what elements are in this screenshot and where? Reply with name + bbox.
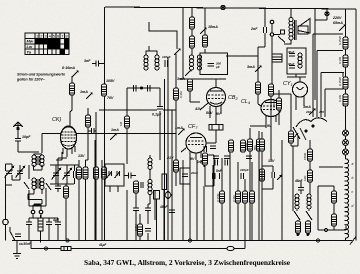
resistor zf a — [203, 153, 208, 165]
extra coil circle — [148, 191, 152, 195]
tube CF7 envelope — [186, 133, 206, 153]
svg-text:Lw: Lw — [27, 44, 33, 49]
capacitor 2nF — [258, 9, 266, 57]
wire caps rail y165 — [50, 165, 79, 173]
box ZF pot — [154, 191, 160, 200]
terminal TA jack b — [270, 33, 274, 37]
svg-text:0,5M: 0,5M — [134, 224, 138, 231]
resistor CL4 cathode bias — [260, 169, 265, 181]
selector arcs — [296, 118, 327, 127]
IF can 1 box — [105, 164, 124, 186]
capacitor zf row c — [246, 156, 252, 158]
wire right chain — [345, 9, 347, 159]
capacitor zf row e — [204, 146, 206, 152]
wire speaker leads — [284, 40, 291, 44]
wire resistor out leads — [40, 215, 42, 243]
resistor R screen IF — [190, 36, 195, 48]
bus ground main — [12, 240, 352, 242]
resistor chain 2 — [343, 55, 348, 67]
tube CL4 grid — [263, 106, 279, 110]
svg-text:pF: pF — [215, 65, 220, 69]
wire CL4 grid — [258, 94, 261, 106]
svg-text:a: a — [352, 162, 354, 166]
oscillator coil left winding — [144, 55, 148, 70]
resistor out stripes — [38, 221, 43, 227]
tube CK pins — [63, 146, 75, 157]
resistor zf c — [236, 191, 241, 203]
capacitor ratio det a — [124, 173, 136, 179]
resistor out dotted — [38, 218, 43, 231]
box AVC detector — [180, 168, 190, 184]
variable capacitor trim 2 — [63, 168, 72, 179]
arrow 1mA mid — [110, 133, 117, 140]
wire filter bottom — [287, 74, 306, 77]
box 1M-50 under CB2 — [209, 125, 223, 131]
pilot lamp b — [343, 140, 349, 146]
tube CB2 anode — [210, 90, 222, 92]
frame bracket right — [318, 186, 346, 230]
svg-text:1mA: 1mA — [80, 90, 88, 94]
capacitor ratio det b — [141, 182, 143, 188]
wire CB2 grid res — [190, 91, 200, 102]
resistor grid leak — [125, 116, 130, 128]
resistor chain 3 — [343, 77, 348, 89]
svg-text:Saba, 347 GWL, Allstrom, 2 Vor: Saba, 347 GWL, Allstrom, 2 Vorkreise, 3 … — [84, 259, 290, 267]
wire backcoupling loop — [291, 94, 298, 146]
mains switch lever — [10, 227, 15, 241]
svg-text:65mA: 65mA — [333, 21, 343, 25]
band switch table — [25, 33, 69, 55]
tube CB2 cathode arc — [210, 102, 222, 104]
wire coil mid — [148, 155, 150, 204]
resistor on x104 — [102, 167, 107, 179]
svg-text:9V: 9V — [190, 157, 195, 161]
IF coil mid upper — [148, 158, 152, 169]
svg-text:0,3M: 0,3M — [179, 91, 183, 98]
ballast wavy resistor — [346, 159, 349, 238]
svg-text:0,1W: 0,1W — [338, 95, 342, 102]
wire x20 column — [20, 165, 29, 206]
wire top HT bus — [105, 7, 356, 241]
wire output tfmr drop — [290, 8, 292, 17]
capacitor cathode bypass — [272, 172, 275, 178]
svg-text:CY1: CY1 — [283, 81, 293, 87]
svg-text:gelten für 220V~: gelten für 220V~ — [16, 78, 46, 82]
svg-text:2M: 2M — [199, 159, 203, 164]
svg-text:10pF: 10pF — [22, 135, 31, 139]
capacitor coupling a2 — [215, 160, 217, 166]
svg-text:41V: 41V — [194, 107, 202, 111]
wire x205 drop — [204, 8, 206, 53]
antenna — [13, 122, 23, 136]
IF transformer can 2 box — [200, 53, 228, 75]
box BaF — [272, 54, 282, 62]
capacitor mid a — [133, 204, 139, 220]
wire x72 into CK — [70, 76, 72, 126]
svg-text:0,15W: 0,15W — [338, 77, 342, 86]
box stripes — [212, 125, 219, 131]
node top right — [325, 12, 329, 16]
svg-text:1M: 1M — [119, 121, 123, 126]
resistor CF7 anode load — [174, 160, 179, 172]
svg-text:50k: 50k — [253, 145, 257, 150]
bandfilter coil 2a — [32, 178, 36, 189]
svg-text:21V: 21V — [166, 156, 174, 160]
switch wave T1 — [24, 182, 51, 190]
svg-text:80V: 80V — [206, 111, 213, 115]
svg-text:70V: 70V — [107, 96, 114, 100]
tube CB2 pins — [200, 103, 221, 121]
ground symbol — [13, 241, 21, 259]
resistor CL4 grid stopper — [256, 82, 261, 94]
capacitor 50nF — [15, 234, 21, 236]
oscillator coil right winding — [155, 55, 159, 70]
capacitor zf row a — [213, 156, 219, 158]
bandfilter coil 1b — [40, 155, 44, 166]
svg-text:0,15M: 0,15M — [216, 193, 220, 202]
svg-text:18mA: 18mA — [208, 25, 218, 29]
wire rail y79 — [180, 78, 226, 80]
wire net leads — [297, 210, 309, 234]
table header digits — [27, 33, 69, 54]
variable capacitor osc tune — [52, 168, 61, 179]
speaker cone — [298, 19, 310, 34]
wire x127 column — [126, 88, 128, 164]
trimmer in can1 a — [107, 171, 112, 178]
capacitor coupling c — [241, 173, 244, 179]
wire x309 — [310, 140, 343, 194]
resistor CL4 cath b — [257, 139, 262, 151]
arrow 3mA CL4 — [255, 65, 262, 72]
node bus left — [66, 239, 69, 242]
resistor left col upper — [269, 84, 274, 96]
variable capacitor aerial trim — [5, 166, 14, 177]
svg-text:4µF: 4µF — [52, 218, 60, 222]
filter block box — [287, 48, 306, 74]
box stripes lower — [64, 246, 68, 250]
tube CB2 grid — [208, 95, 224, 99]
node junction on HT bus — [221, 5, 225, 9]
tube CL4 pins — [266, 115, 276, 128]
annotation texts — [16, 16, 343, 247]
resistor under CK — [64, 186, 69, 198]
wire CL4 anode up — [271, 94, 291, 100]
terminal out b — [39, 210, 43, 214]
tube CL4 envelope — [261, 100, 281, 117]
resistor R anode IF — [190, 17, 195, 29]
output transformer core — [295, 20, 297, 40]
wire anode column x104 — [104, 64, 106, 241]
tube designators — [52, 81, 293, 130]
ballast tap letters — [352, 162, 354, 208]
capacitor 4uF — [29, 218, 61, 241]
tube CK mixer envelope — [61, 126, 77, 149]
arrow 3mA CB2 — [185, 69, 192, 76]
bandfilter coil 1a — [32, 155, 36, 166]
svg-text:0,4W: 0,4W — [272, 101, 276, 108]
jack box — [281, 30, 285, 34]
wire box leads — [207, 121, 217, 143]
wire ballast to bus — [346, 235, 357, 241]
svg-text:3nF: 3nF — [84, 59, 91, 63]
core bandfilter 1 — [37, 156, 39, 165]
wire tap nest 4 — [325, 89, 343, 96]
arrow 3mA CY — [309, 108, 316, 115]
svg-text:Mw: Mw — [27, 39, 34, 44]
capacitor 45nF mid — [169, 206, 175, 222]
table filled cells row Ta — [60, 49, 64, 54]
wire left HT drop — [104, 7, 106, 64]
fuse oval — [227, 246, 234, 250]
node lower bus — [44, 247, 47, 250]
capacitor 200pF in can — [208, 64, 215, 67]
capacitor 10pF antenna — [15, 136, 21, 152]
svg-text:15V: 15V — [268, 159, 275, 163]
wire terminals — [33, 205, 41, 218]
switch bank lever b — [300, 128, 306, 140]
resistor left 0,4W — [277, 98, 282, 110]
capacitor under CK — [55, 184, 61, 192]
node bus right — [316, 239, 319, 242]
pilot lamp a — [343, 130, 349, 136]
resistor ratio det — [134, 181, 139, 193]
svg-text:1mA: 1mA — [175, 126, 183, 130]
svg-text:0,3M: 0,3M — [232, 195, 236, 202]
tube CY1 pins — [296, 96, 304, 111]
svg-text:0,1M: 0,1M — [244, 143, 248, 150]
speaker magnet — [298, 26, 308, 34]
svg-text:240: 240 — [305, 110, 311, 114]
capacitor out b — [46, 218, 52, 241]
capacitor 30uF b — [289, 66, 295, 68]
svg-text:13V: 13V — [78, 154, 85, 158]
svg-text:1kΩ: 1kΩ — [303, 175, 307, 181]
wire frame col — [333, 186, 335, 230]
svg-text:CB2: CB2 — [228, 95, 239, 101]
resistor frame b — [332, 214, 337, 226]
resistor zf extra — [250, 191, 255, 203]
resistor chain 4 — [343, 94, 348, 106]
svg-text:9V: 9V — [267, 124, 272, 128]
wire long x168 — [167, 57, 169, 241]
tube CB2 envelope — [207, 88, 226, 107]
wire tap nest 1 — [313, 34, 343, 96]
wire screen column x96 — [95, 112, 97, 241]
svg-text:3mA: 3mA — [303, 105, 311, 109]
resistor on x262 — [260, 139, 265, 151]
capacitor in AVC box — [182, 174, 188, 176]
bus secondary lower — [31, 241, 245, 249]
svg-text:220V: 220V — [332, 16, 342, 20]
arrow 8-16mA — [72, 70, 79, 77]
switch mains slash — [278, 36, 285, 43]
svg-text:Strom-und Spannungswerte: Strom-und Spannungswerte — [17, 73, 65, 77]
wire x176 drop — [175, 54, 177, 186]
arrow osc current — [174, 48, 181, 55]
wire to CL4 grid rail — [226, 56, 258, 82]
capacitor padding left — [134, 85, 137, 92]
resistor AVC b — [83, 167, 88, 179]
wire CB2 anode up — [215, 79, 217, 88]
resistor tone a — [308, 149, 313, 161]
svg-text:Ta: Ta — [27, 50, 32, 55]
wire x88 — [86, 108, 89, 160]
output transformer primary — [289, 18, 293, 41]
wire cathode stub — [262, 155, 273, 189]
switch bank lever a — [293, 127, 300, 139]
capacitor mid c — [145, 229, 151, 241]
pilot lamp c — [343, 149, 349, 155]
wire 220V drop — [315, 9, 327, 100]
wire CL4 cath resistors — [250, 126, 266, 241]
capacitor zf row d — [210, 146, 216, 148]
svg-text:100pF: 100pF — [240, 168, 249, 172]
svg-text:2nF: 2nF — [250, 27, 258, 31]
wire comb verticals — [95, 132, 293, 241]
svg-text:c: c — [352, 190, 354, 194]
capacitor out a — [26, 218, 32, 241]
antenna node circle — [17, 127, 19, 129]
resistor CL4 cath a — [248, 139, 253, 151]
wire resistor mid — [139, 214, 141, 241]
rotated value labels right side — [119, 36, 342, 231]
svg-text:0,1µF: 0,1µF — [152, 113, 162, 117]
terminal TA jack a — [270, 20, 274, 24]
core bandfilter 2 — [37, 179, 39, 189]
resistor beside CK — [86, 115, 91, 127]
svg-text:d: d — [352, 204, 354, 208]
svg-text:8·16mA: 8·16mA — [62, 66, 75, 70]
table filled cells row Mw — [35, 38, 69, 54]
box resistor on lower bus — [61, 246, 71, 250]
resistor net b — [306, 221, 311, 233]
resistor 0,3M — [174, 88, 179, 100]
svg-text:30µF: 30µF — [288, 62, 295, 66]
tube CF7 grid — [188, 141, 204, 145]
coil hum a — [295, 194, 299, 209]
svg-text:150Ω: 150Ω — [303, 152, 307, 160]
wire x262 down — [261, 189, 263, 241]
wire terminal left — [5, 185, 7, 241]
resistor heater dropper top — [70, 83, 75, 95]
switch net lever b — [306, 211, 312, 220]
wire lower bus left end — [30, 241, 32, 249]
resistor zf e — [229, 140, 234, 152]
coil IF2 primary — [190, 55, 194, 70]
box BaF stripes — [272, 57, 282, 60]
wire AVC rail y110 — [99, 109, 176, 111]
diamond crystal — [164, 191, 171, 199]
tube CK top cap — [64, 127, 73, 129]
svg-text:20nF: 20nF — [190, 171, 198, 175]
resistor tone b — [308, 170, 313, 182]
capacitor 30uF a — [289, 54, 295, 56]
wire long x172 — [171, 110, 173, 241]
resistor 105V column — [102, 84, 107, 96]
svg-text:0,1W: 0,1W — [338, 57, 342, 64]
wire x192 drop — [191, 7, 193, 55]
resistor zf f — [241, 140, 246, 152]
tube CL4 anode — [265, 102, 277, 104]
arrow 18mA — [200, 27, 207, 34]
wire bandfilter bottom — [28, 165, 46, 210]
node grid row — [141, 87, 143, 89]
resistor AVC a — [77, 167, 82, 179]
coil hum b — [307, 194, 311, 209]
capacitor padding right — [148, 85, 151, 92]
svg-text:1mA: 1mA — [111, 128, 119, 132]
resistor frame a — [332, 191, 337, 203]
svg-text:CL4: CL4 — [241, 99, 251, 105]
capacitor zf row b — [224, 156, 230, 158]
wire tap nest 2 — [317, 51, 343, 97]
choke coil in filter — [298, 53, 302, 68]
node bracket — [324, 228, 327, 231]
svg-text:0,15W: 0,15W — [338, 36, 342, 45]
wire x279 — [278, 90, 280, 125]
slash bus end — [350, 237, 356, 245]
wire AGC rail y133 — [42, 134, 176, 154]
svg-text:CF7: CF7 — [188, 124, 198, 130]
variable capacitor input tune — [16, 166, 25, 177]
node bus mid — [188, 239, 191, 242]
svg-text:3mA: 3mA — [177, 77, 185, 81]
arrow 1mA CF7 — [178, 128, 185, 135]
wire CK cathode down — [56, 152, 67, 184]
wire x183 drop from bus — [182, 7, 184, 79]
table filled cells row Lw — [48, 44, 61, 49]
capacitor coupling b — [220, 173, 223, 179]
wire under CK — [65, 184, 67, 241]
wire grid caps row — [127, 88, 160, 160]
svg-text:3mA: 3mA — [247, 65, 255, 69]
capacitor coupling b2 — [225, 160, 227, 166]
tube CY1 cathode hook — [297, 77, 304, 90]
capacitor coupling a — [213, 173, 216, 179]
svg-text:220: 220 — [318, 110, 324, 114]
resistor CB2 grid — [188, 79, 193, 91]
arrow 1mA left — [86, 92, 93, 99]
capacitor 45nF right — [298, 181, 304, 194]
tube CY1 envelope — [293, 82, 308, 97]
svg-text:CK): CK) — [52, 117, 61, 123]
svg-text:9V: 9V — [216, 112, 221, 116]
arrow 65mA — [339, 24, 346, 31]
capacitor 0,1uF — [157, 107, 163, 109]
resistor on x96 — [94, 167, 99, 179]
tube CK internal grids — [62, 132, 76, 142]
wire jack leads — [271, 24, 280, 160]
terminal left edge — [3, 219, 9, 225]
resistor zf b — [220, 191, 225, 203]
capacitor 3nF — [92, 61, 105, 67]
wire caps bottoms — [50, 176, 75, 184]
IF coil mid lower — [148, 180, 152, 191]
tube CF7 pins — [181, 148, 201, 161]
resistor mid vol — [138, 224, 143, 236]
svg-text:b: b — [352, 176, 354, 180]
capacitor mid b — [145, 204, 151, 224]
tube CF7 anode — [190, 137, 202, 139]
tube CK cathode — [63, 145, 74, 147]
svg-text:41µF: 41µF — [98, 243, 107, 247]
selector dots — [312, 125, 314, 127]
trimmer in can1 b — [115, 171, 120, 178]
wire osc feed — [149, 22, 177, 49]
svg-text:30µF: 30µF — [288, 50, 295, 54]
resistor R decoupling — [203, 35, 208, 47]
wire taps down to selector — [313, 96, 325, 117]
